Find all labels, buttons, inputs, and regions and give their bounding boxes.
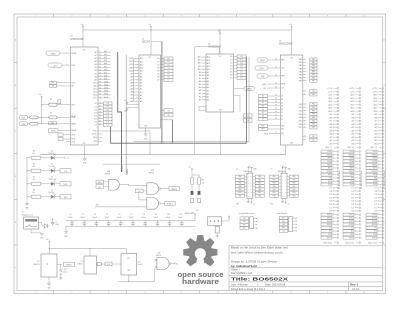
svg-text:D1: D1 <box>230 59 232 61</box>
svg-text:19: 19 <box>99 82 101 84</box>
svg-text:D5: D5 <box>230 71 232 73</box>
svg-text:VSS: VSS <box>290 143 293 145</box>
data bus vertical right of RAM dark <box>245 57 247 144</box>
svg-text:C7: C7 <box>131 214 133 216</box>
svg-text:by: Individual Sold: by: Individual Sold <box>231 264 257 268</box>
svg-text:PB3: PB3 <box>292 186 295 188</box>
svg-text:D2: D2 <box>262 102 264 104</box>
svg-text:D2: D2 <box>94 109 96 111</box>
J3 GND row <box>370 147 384 149</box>
svg-text:OE: OE <box>247 120 249 122</box>
svg-text:R8: R8 <box>33 189 35 191</box>
resistor R3 pull-up to RDY <box>41 99 70 106</box>
svg-text:A9: A9 <box>94 78 96 81</box>
svg-text:D5: D5 <box>281 112 283 114</box>
svg-text:A0: A0 <box>207 98 209 101</box>
svg-text:GND 39,40: GND 39,40 <box>345 242 354 244</box>
+5V logic distribution rail <box>49 248 126 249</box>
svg-text:1: 1 <box>35 16 36 18</box>
svg-text:D4: D4 <box>281 109 283 111</box>
svg-text:A14: A14 <box>207 56 210 59</box>
svg-text:D7: D7 <box>281 119 283 121</box>
J1 final GND row <box>323 242 339 244</box>
svg-text:D0: D0 <box>157 58 159 60</box>
svg-text:D3: D3 <box>157 67 159 69</box>
resistor R9 clock series <box>97 263 105 266</box>
svg-text:31: 31 <box>99 118 101 120</box>
svg-text:28: 28 <box>275 111 277 113</box>
svg-text:PB7: PB7 <box>299 127 302 129</box>
svg-text:A6: A6 <box>207 80 209 83</box>
svg-text:14: 14 <box>99 66 101 68</box>
+5V power rail across IC tops <box>83 29 292 31</box>
label box for CLK LED <box>58 169 72 173</box>
svg-text:D3: D3 <box>94 112 96 114</box>
svg-text:D6: D6 <box>230 75 232 77</box>
svg-text:C2: C2 <box>70 214 72 216</box>
svg-text:SYNC: SYNC <box>349 171 354 173</box>
svg-text:21: 21 <box>99 88 101 90</box>
global label IRQB <box>19 115 30 119</box>
svg-text:PB5: PB5 <box>273 192 276 194</box>
svg-text:PB6: PB6 <box>299 124 302 126</box>
RAM write-enable routing wire left of U4 <box>195 47 220 155</box>
NAND gate U3B RAM select <box>147 170 161 195</box>
svg-text:GND 39,40: GND 39,40 <box>323 242 332 244</box>
svg-text:27: 27 <box>275 114 277 116</box>
bus connector J1 column <box>327 88 338 146</box>
svg-text:A12: A12 <box>207 62 210 65</box>
svg-text:R4: R4 <box>50 112 52 114</box>
svg-text:24: 24 <box>99 97 101 99</box>
svg-text:PC BUS/RC6502 Bus: PC BUS/RC6502 Bus <box>361 171 363 189</box>
svg-text:PB2: PB2 <box>312 110 315 112</box>
svg-text:12: 12 <box>99 60 101 62</box>
bus connector J3 column <box>372 88 383 146</box>
no-connect stubs U2 left bottom <box>58 133 70 143</box>
svg-text:A6: A6 <box>94 69 96 72</box>
svg-text:SYNC: SYNC <box>327 171 332 173</box>
svg-text:R5: R5 <box>33 150 35 152</box>
connector J7 Control Signals <box>277 212 293 231</box>
svg-text:RESB: RESB <box>260 60 264 62</box>
U1 right data pins D0-D7 with labels <box>157 57 173 82</box>
svg-text:A14: A14 <box>140 57 143 60</box>
svg-text:A4: A4 <box>94 63 96 66</box>
svg-text:J5: J5 <box>22 212 24 214</box>
svg-text:OE: OE <box>167 115 169 117</box>
label box CLK from oscillator <box>105 262 121 266</box>
capacitor C6 100nF <box>117 214 123 227</box>
svg-text:D5: D5 <box>94 118 96 120</box>
svg-text:2: 2 <box>71 16 72 18</box>
svg-text:PB4: PB4 <box>292 189 295 191</box>
svg-text:USR2: USR2 <box>349 218 354 220</box>
svg-text:A8: A8 <box>94 75 96 78</box>
power flag +5V at CPU <box>81 24 84 47</box>
connector J6 Unregulated Bus Power <box>239 212 255 228</box>
LED D2 CLK LED <box>49 163 58 172</box>
svg-text:R6: R6 <box>33 163 35 165</box>
svg-text:27: 27 <box>99 105 101 107</box>
svg-text:KiCad E.D.A. kicad (5.1.10)-1: KiCad E.D.A. kicad (5.1.10)-1 <box>231 287 266 291</box>
svg-text:C6: C6 <box>118 214 120 216</box>
connector VIA Port A body <box>244 166 253 198</box>
label box A15 to AND gate <box>96 180 107 184</box>
VIA Port A bottom power stubs <box>236 198 255 205</box>
svg-text:R10: R10 <box>202 180 205 182</box>
svg-text:PB3: PB3 <box>273 186 276 188</box>
svg-text:PHI2: PHI2 <box>328 151 332 153</box>
svg-text:SYNC LED: SYNC LED <box>49 179 57 181</box>
svg-text:PA2: PA2 <box>299 64 302 67</box>
svg-text:D4: D4 <box>157 70 159 72</box>
svg-text:100nF: 100nF <box>166 217 171 219</box>
U5 left pin RWB wire <box>262 83 280 86</box>
svg-text:2: 2 <box>71 292 72 294</box>
title block size date row <box>231 283 286 287</box>
svg-text:C10: C10 <box>167 214 170 216</box>
J7 pin row 2 <box>279 220 297 223</box>
U2 inside pin names left side <box>71 50 86 146</box>
oscillator X1 1MHz can <box>78 249 97 275</box>
svg-text:5: 5 <box>181 16 182 18</box>
svg-text:A1: A1 <box>140 97 142 100</box>
svg-text:D7: D7 <box>240 78 242 80</box>
svg-text:A7: A7 <box>207 77 209 80</box>
svg-text:RESB: RESB <box>71 130 77 132</box>
svg-text:RS0: RS0 <box>262 125 265 127</box>
svg-text:PB6: PB6 <box>292 195 295 197</box>
label box CLK to NAND U3B <box>136 189 147 193</box>
U1 ground wire and symbol <box>144 128 149 140</box>
svg-text:23: 23 <box>275 67 277 69</box>
svg-text:CB2: CB2 <box>312 139 315 141</box>
svg-text:+5v: +5v <box>124 100 127 102</box>
svg-text:74HC00: 74HC00 <box>156 255 162 257</box>
svg-text:GND: GND <box>243 224 246 226</box>
svg-text:File: bo6502-x.sch: File: bo6502-x.sch <box>231 271 253 275</box>
U4 ground wire to ground net <box>220 112 221 155</box>
J2 user signal boxed rows <box>343 213 361 239</box>
J2 control signal boxed rows <box>343 150 363 189</box>
svg-text:+5v: +5v <box>236 168 239 170</box>
svg-text:D7: D7 <box>157 80 159 82</box>
U5 left pin CS2B oval label <box>255 66 280 70</box>
capacitor C5 100nF <box>105 214 111 227</box>
label box ROMCS output <box>165 201 175 205</box>
svg-text:Date: 2021-06-28: Date: 2021-06-28 <box>265 283 286 287</box>
ground for LED column <box>25 197 30 210</box>
U5 left data pins D0-D7 with labels <box>259 95 281 121</box>
svg-text:100nF: 100nF <box>92 217 97 219</box>
svg-text:100nF: 100nF <box>178 217 183 219</box>
svg-text:+5v: +5v <box>81 24 84 26</box>
svg-text:A13: A13 <box>93 91 96 94</box>
label box RESET to U2 <box>49 129 71 133</box>
svg-text:A7: A7 <box>140 79 142 82</box>
svg-text:VDD: VDD <box>290 57 293 59</box>
svg-text:PB0: PB0 <box>312 104 315 106</box>
svg-text:VCC: VCC <box>148 57 151 59</box>
svg-text:C9: C9 <box>155 214 157 216</box>
U4 inside power pin names <box>219 56 223 112</box>
U5 right port B pins PB0-PB7 <box>299 103 317 130</box>
svg-text:PB0: PB0 <box>273 176 276 178</box>
address bus vertical wire from CPU <box>118 52 122 172</box>
svg-text:100nF: 100nF <box>68 217 73 219</box>
svg-text:1.5k: 1.5k <box>32 179 35 181</box>
svg-text:CLK: CLK <box>107 264 110 266</box>
U5 inside pin names left side <box>281 57 293 144</box>
svg-text:D7: D7 <box>230 78 232 80</box>
svg-text:CS2B: CS2B <box>260 68 264 70</box>
svg-text:NMIB: NMIB <box>71 123 76 125</box>
J7 pin row 5 <box>279 229 297 232</box>
open source hardware gear logo <box>183 235 217 270</box>
svg-text:30: 30 <box>99 115 101 117</box>
svg-text:GND 1,2: GND 1,2 <box>370 147 377 149</box>
U2 ground wire and symbol <box>83 145 88 165</box>
svg-text:21: 21 <box>275 132 277 134</box>
svg-text:SYNC: SYNC <box>372 171 377 173</box>
svg-text:A8: A8 <box>140 76 142 79</box>
svg-text:+5v: +5v <box>270 168 273 170</box>
svg-text:VIN: VIN <box>243 218 245 220</box>
svg-text:29: 29 <box>275 108 277 110</box>
svg-text:+5v: +5v <box>253 204 256 206</box>
svg-text:U5: U5 <box>279 41 281 43</box>
svg-text:33: 33 <box>275 95 277 97</box>
svg-text:D5: D5 <box>157 73 159 75</box>
svg-text:C8: C8 <box>143 214 145 216</box>
svg-text:GND: GND <box>127 270 130 272</box>
decoupling capacitor rail top <box>66 220 195 222</box>
bulk capacitor C1 100uF <box>51 218 59 226</box>
data bus vertical from CPU data labels <box>109 127 111 143</box>
U1 left address pins A0-A14 <box>129 57 143 103</box>
bus connector J2 column <box>349 88 360 146</box>
svg-text:IRQB: IRQB <box>264 133 268 135</box>
jumper pin block below JP1 <box>215 226 219 237</box>
svg-text:A9: A9 <box>140 72 142 75</box>
svg-text:EXP1: EXP1 <box>327 237 331 239</box>
svg-text:A3: A3 <box>94 60 96 63</box>
title block revision cell <box>350 283 360 292</box>
svg-text:D7: D7 <box>167 80 169 82</box>
J2 final GND row <box>345 242 361 244</box>
svg-text:PA5: PA5 <box>299 73 302 76</box>
svg-text:CLK: CLK <box>64 171 67 173</box>
wire to NAND U3C upper input <box>139 192 147 200</box>
svg-text:100nF: 100nF <box>141 217 146 219</box>
connector VIA Port B body <box>278 166 287 198</box>
U4 left address pins A0-A14 and bus wires <box>198 56 210 111</box>
svg-text:RESB: RESB <box>51 131 55 133</box>
J6 pin row 4 <box>240 227 257 230</box>
svg-text:EXP1: EXP1 <box>349 237 353 239</box>
svg-text:D1: D1 <box>262 99 264 101</box>
svg-text:PB5: PB5 <box>292 192 295 194</box>
svg-text:RES: RES <box>282 227 285 229</box>
svg-text:29: 29 <box>99 111 101 113</box>
svg-text:D1: D1 <box>281 99 283 101</box>
svg-text:1.5k: 1.5k <box>32 153 35 155</box>
svg-text:+5v: +5v <box>188 167 191 169</box>
svg-text:PB2: PB2 <box>292 183 295 185</box>
wire NAND U3C output to ROMCS label <box>161 202 165 204</box>
U6 ground symbol <box>47 283 52 289</box>
svg-text:22: 22 <box>99 91 101 93</box>
J6 pin row 1 <box>240 217 257 220</box>
svg-text:A1: A1 <box>94 54 96 57</box>
svg-text:and Garth Wilson (wilsonminesc: and Garth Wilson (wilsonminesco.co.uk) <box>231 251 283 255</box>
jumper shunt blocks below pull-ups <box>191 185 201 203</box>
svg-text:PHI2: PHI2 <box>281 76 285 78</box>
svg-text:A10: A10 <box>207 68 210 71</box>
J1 control signal boxed rows <box>321 150 341 189</box>
capacitor C8 100nF <box>141 214 147 227</box>
svg-text:D6: D6 <box>94 122 96 124</box>
svg-text:(1MHz): (1MHz) <box>78 264 83 266</box>
power flag +5V at RAM <box>218 29 221 54</box>
svg-text:VIA Port A: VIA Port A <box>244 170 253 173</box>
svg-text:A5: A5 <box>140 85 142 88</box>
faint net wire above gates <box>103 163 160 165</box>
ROM write-enable vertical wire <box>151 42 162 144</box>
ground net wire horizontal <box>26 154 285 159</box>
svg-text:9: 9 <box>99 51 100 53</box>
svg-text:3: 3 <box>108 16 109 18</box>
svg-text:PHI2: PHI2 <box>261 76 265 78</box>
svg-text:D7: D7 <box>262 119 264 121</box>
J7 pin row 1 <box>279 217 297 220</box>
capacitor C3 100nF <box>80 214 86 227</box>
svg-text:W65C02S6P: W65C02S6P <box>70 39 84 41</box>
net label rotated on wire 2 end <box>126 169 129 175</box>
wire A14 net to NAND U3C lower input <box>95 204 147 207</box>
svg-text:A12: A12 <box>140 63 143 66</box>
U2 left pin PHI2 in with global label <box>48 63 70 67</box>
svg-text:RS1: RS1 <box>281 129 284 131</box>
svg-text:PB4: PB4 <box>312 117 315 119</box>
J2 GND row <box>347 147 361 149</box>
svg-text:D7: D7 <box>107 125 109 127</box>
data bus horizontal wire light <box>134 141 250 143</box>
svg-text:D4: D4 <box>230 68 232 70</box>
J6 pin row 3 <box>240 223 257 226</box>
svg-text:D3: D3 <box>281 106 283 108</box>
svg-text:D4: D4 <box>94 115 96 117</box>
J6 pin row 2 <box>240 220 257 223</box>
svg-text:PB3: PB3 <box>299 114 302 116</box>
svg-text:C5: C5 <box>106 214 108 216</box>
svg-text:1.5k: 1.5k <box>32 192 35 194</box>
power flag +5V at VIA <box>289 24 292 55</box>
svg-text:D1: D1 <box>51 150 53 152</box>
VIA U5 W65C22S6P body <box>279 41 303 145</box>
svg-text:+5v: +5v <box>66 158 69 160</box>
svg-text:PC BUS/RC6502 Bus: PC BUS/RC6502 Bus <box>384 171 386 189</box>
resistor R5 for PWR LED <box>27 150 51 159</box>
svg-text:VCC: VCC <box>219 56 222 58</box>
svg-text:100nF: 100nF <box>153 217 158 219</box>
J1 data rows D7-D0 <box>329 187 338 212</box>
svg-text:A7: A7 <box>94 72 96 75</box>
J7 pin row 3 <box>279 223 297 226</box>
svg-text:hardware: hardware <box>182 277 219 286</box>
supervisor IC U6 reset generator <box>34 254 57 283</box>
svg-text:PA3: PA3 <box>299 67 302 70</box>
resistor R8 for RST LED <box>27 189 51 198</box>
svg-text:4.7k: 4.7k <box>202 182 205 184</box>
svg-text:PB3: PB3 <box>312 114 315 116</box>
svg-text:7: 7 <box>254 292 255 294</box>
U1 left lower power pins <box>124 100 139 112</box>
svg-text:A15: A15 <box>93 97 96 100</box>
svg-text:D1: D1 <box>94 106 96 108</box>
title block sheet and file rows <box>231 268 253 276</box>
svg-text:EXP1: EXP1 <box>372 237 376 239</box>
svg-text:30: 30 <box>275 105 277 107</box>
resistor R6 for CLK LED <box>27 163 51 172</box>
J3 user signal boxed rows <box>366 213 384 239</box>
J3 final GND row <box>368 242 384 244</box>
svg-text:100nF: 100nF <box>80 217 85 219</box>
resistor R11 NMI pull-up vertical <box>198 177 201 185</box>
svg-text:D4: D4 <box>262 109 264 111</box>
svg-text:A4: A4 <box>207 86 209 89</box>
svg-text:A2: A2 <box>207 92 209 95</box>
svg-text:USR2: USR2 <box>327 218 332 220</box>
address bus vertical wire 2 <box>125 55 127 175</box>
svg-text:13: 13 <box>99 63 101 65</box>
svg-text:A5: A5 <box>94 66 96 69</box>
U5 left pin PHI2 oval label <box>257 74 280 78</box>
svg-text:NC: NC <box>176 263 178 265</box>
VIA Port A pin row PA0 labels <box>236 175 265 178</box>
svg-text:GND 1,2: GND 1,2 <box>347 147 354 149</box>
svg-text:PB0: PB0 <box>299 104 302 106</box>
svg-text:A13: A13 <box>140 60 143 63</box>
svg-text:10: 10 <box>99 54 101 56</box>
wire PHI2 from U2 to clock net <box>103 131 151 154</box>
label box A14 to AND gate <box>96 185 107 189</box>
svg-text:PC BUS/RC6502 Bus: PC BUS/RC6502 Bus <box>339 171 341 189</box>
svg-text:C4: C4 <box>94 214 96 216</box>
svg-text:NMIB: NMIB <box>51 123 55 125</box>
svg-text:PB1: PB1 <box>292 179 295 181</box>
svg-text:Rev: 1: Rev: 1 <box>350 283 358 287</box>
svg-text:4: 4 <box>144 16 145 18</box>
svg-text:GND 39,40: GND 39,40 <box>368 242 377 244</box>
title block comment text <box>231 246 288 268</box>
VIA Port B top power stubs <box>270 166 292 173</box>
svg-text:A0: A0 <box>94 51 96 54</box>
barrel jack J5 power input <box>22 212 39 229</box>
svg-text:A12: A12 <box>93 88 96 91</box>
svg-text:D2: D2 <box>281 102 283 104</box>
svg-text:RESB: RESB <box>71 53 77 55</box>
net label rotated on bus end <box>122 166 124 172</box>
svg-text:USR1: USR1 <box>327 214 332 216</box>
U5 left pin IRQ wire <box>264 132 280 135</box>
power-on enable block U5C <box>121 249 143 276</box>
svg-text:1.5k: 1.5k <box>32 166 35 168</box>
caps rail ground left end <box>64 226 69 238</box>
svg-text:RWB: RWB <box>262 84 266 86</box>
VIA Port A pin row PA3 labels <box>236 185 265 188</box>
